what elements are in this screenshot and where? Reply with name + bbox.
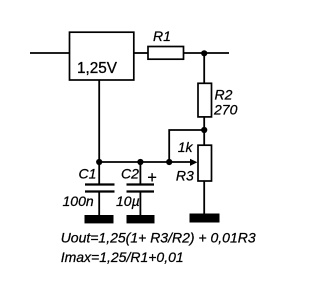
svg-text:R2: R2 (215, 87, 233, 103)
svg-text:R1: R1 (153, 28, 171, 44)
svg-text:Imax=1,25/R1+0,01: Imax=1,25/R1+0,01 (61, 249, 184, 265)
svg-text:1,25V: 1,25V (77, 60, 118, 77)
svg-text:10µ: 10µ (116, 193, 140, 209)
svg-text:C1: C1 (79, 165, 97, 181)
svg-text:R3: R3 (176, 168, 194, 184)
svg-text:270: 270 (213, 102, 238, 118)
svg-text:C2: C2 (121, 166, 139, 182)
svg-text:100n: 100n (63, 193, 94, 209)
svg-text:1k: 1k (178, 139, 194, 155)
svg-text:Uout=1,25(1+ R3/R2) + 0,01R3: Uout=1,25(1+ R3/R2) + 0,01R3 (61, 229, 256, 245)
